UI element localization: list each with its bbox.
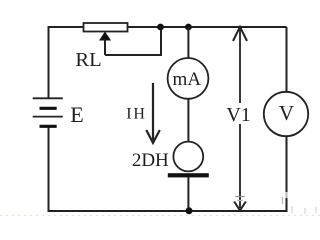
svg-text:mA: mA — [173, 69, 202, 90]
meter mA — [168, 58, 209, 99]
node V1 measurement arrow — [233, 27, 247, 211]
wire wiper loop — [105, 27, 161, 55]
resistor RL (rheostat body) — [84, 23, 128, 32]
wire 2DH to bottom rail — [187, 177, 189, 211]
svg-text:H: H — [133, 106, 145, 123]
svg-text:V: V — [279, 101, 294, 125]
rheostat wiper arrow — [99, 32, 111, 56]
wire mA to 2DH — [187, 99, 189, 142]
faint scan artifact light patch on right wire — [285, 192, 287, 198]
meter V — [264, 92, 308, 136]
faint scan artifact dotted line at bottom — [0, 215, 320, 217]
wire bottom rail — [49, 210, 288, 212]
photocell 2DH — [168, 142, 209, 178]
node junction dot top-right — [185, 24, 192, 31]
faint scan artifact cross above V1 bottom arrow — [236, 197, 245, 201]
svg-text:RL: RL — [75, 49, 101, 71]
svg-text:V1: V1 — [226, 104, 250, 126]
wire top rail to mA — [187, 27, 189, 59]
wire top rail to V — [286, 27, 288, 92]
svg-text:I: I — [126, 106, 131, 123]
wire left rail lower — [48, 127, 50, 212]
svg-text:E: E — [70, 102, 83, 127]
node junction dot top-left — [157, 24, 164, 31]
wire left rail upper — [48, 26, 50, 98]
wire V to bottom rail — [286, 136, 288, 212]
arrow IH current direction — [146, 83, 160, 143]
battery E — [33, 98, 63, 126]
wire top rail — [49, 26, 287, 28]
faint scan artifact marks bottom right — [283, 197, 317, 214]
node junction dot bottom — [186, 207, 193, 214]
svg-text:2DH: 2DH — [132, 150, 169, 171]
